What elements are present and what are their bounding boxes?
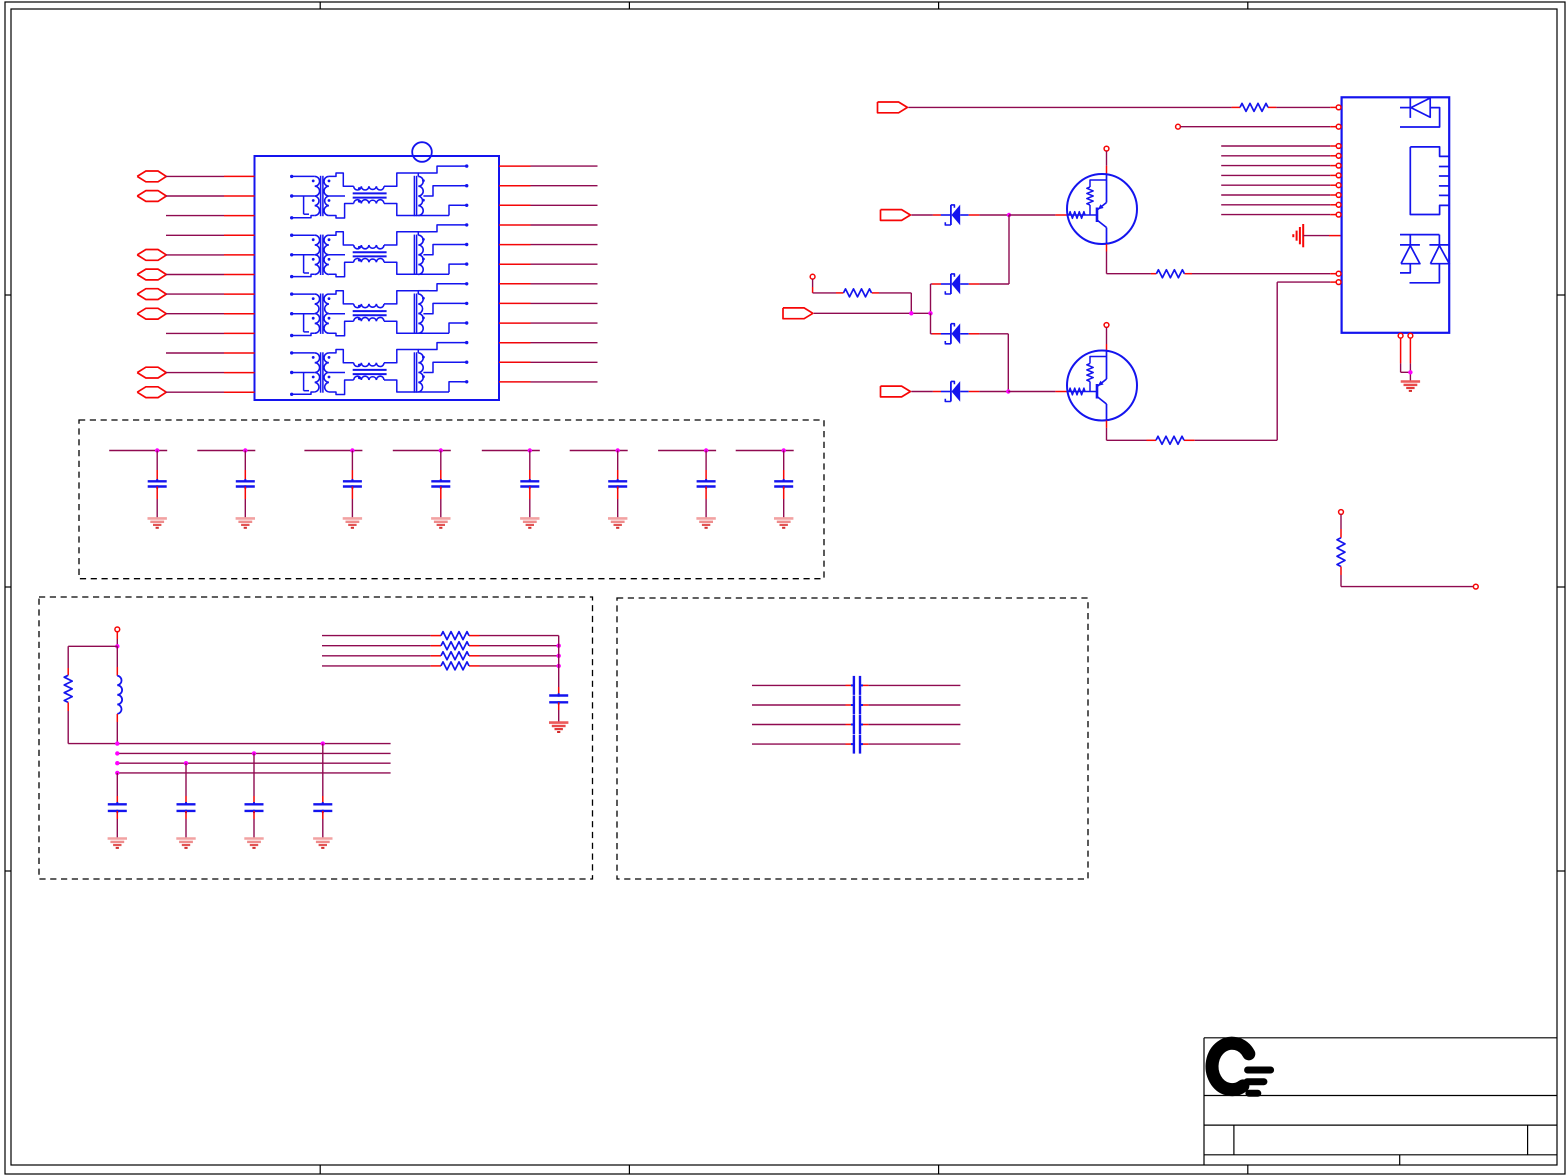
wire junction to left branch: [68, 645, 117, 647]
wire cap bank net 2: [197, 450, 255, 452]
ground (termination 3): [244, 839, 263, 848]
wire input row 1: [166, 175, 255, 177]
resistor R7: [1156, 436, 1184, 444]
ground (cap bank 1): [148, 518, 167, 527]
port IN6 (bidirectional hexagon): [137, 269, 166, 280]
ground (cap bank 3): [343, 518, 362, 527]
wire input row 11: [166, 372, 255, 374]
dashed enclosure (decoupling capacitor bank): [79, 420, 824, 579]
ground (cap bank 8): [774, 518, 793, 527]
capacitor C5: [520, 451, 539, 519]
wire port to D4: [911, 391, 941, 393]
LED pair LD2 LD3 (inside J1): [1400, 235, 1449, 283]
wire input row 2: [166, 195, 255, 197]
dashed enclosure (termination network): [39, 597, 593, 879]
wire J1 data 8: [1221, 214, 1336, 216]
capacitor C14: [313, 796, 332, 839]
capacitor C1: [148, 451, 167, 519]
wire coupling net 2: [752, 704, 960, 706]
port IN8 (bidirectional hexagon): [137, 308, 166, 319]
resistor R6: [1156, 270, 1184, 278]
connector J1 (RJ45 with magnetics) body: [1342, 97, 1450, 332]
capacitor C7: [697, 451, 716, 519]
wire Q2 emitter: [1106, 327, 1108, 350]
wire J1 data 2: [1221, 155, 1336, 157]
wire input row 3: [166, 215, 255, 217]
wire bus 4: [117, 772, 390, 774]
ground (cap bank 7): [696, 518, 715, 527]
wire input row 8: [166, 313, 255, 315]
wire output row 10: [499, 342, 598, 344]
transformer group T2 (isolation transformer + common-mode choke + autotransformer): [290, 223, 468, 278]
junction node 3: [350, 448, 354, 452]
wire J1 data 5: [1221, 184, 1336, 186]
pin (open circle) Q1 emitter supply: [1104, 146, 1109, 151]
junction node 7: [704, 448, 708, 452]
port IN11 (bidirectional hexagon): [137, 367, 166, 378]
wire right column: [558, 636, 560, 687]
wire cap bank net 7: [658, 450, 716, 452]
pin (open circle) LED return: [1176, 124, 1181, 129]
capacitor C17 (series): [851, 696, 863, 715]
transistor Q1 (digital PNP): [1067, 174, 1137, 244]
port TX+ (arrow): [881, 210, 911, 221]
port TX- (arrow): [881, 386, 911, 397]
wire bus tap 4: [322, 744, 324, 796]
junction node G: [1408, 370, 1412, 374]
wire J1 data 6: [1221, 194, 1336, 196]
wire output row 6: [499, 263, 598, 265]
pin (open circle) R9 end: [1473, 584, 1478, 589]
wire bottom link: [68, 743, 117, 745]
junction node 8: [782, 448, 786, 452]
junction node B2: [909, 311, 913, 315]
resistor R3: [441, 642, 469, 650]
wire bus 1: [117, 743, 390, 745]
magnetics module U1 box: [255, 156, 500, 400]
wire D2 cathode to node C: [931, 284, 942, 313]
wire cap bank net 6: [570, 450, 628, 452]
capacitor C15: [549, 687, 568, 723]
connector J1 pins (open circles): [1336, 105, 1341, 285]
port IN12 (bidirectional hexagon): [137, 387, 166, 398]
wire Q1 collector to J1: [1107, 244, 1337, 274]
chassis ground (J1 shield): [1293, 224, 1303, 247]
wire J1 data 4: [1221, 174, 1336, 176]
wire D1 to node B1: [969, 214, 1009, 216]
wire cap bank net 4: [393, 450, 451, 452]
wire coupling net 4: [752, 743, 960, 745]
wire cap bank net 1: [109, 450, 167, 452]
capacitor C8: [774, 451, 793, 519]
wire input row 12: [166, 391, 255, 393]
dashed enclosure (AC coupling capacitors): [617, 598, 1088, 879]
resistor R10 (left branch): [64, 646, 72, 743]
wire node B1 to Q1 base: [1009, 214, 1067, 216]
wire output row 1: [499, 165, 598, 167]
wire center net: [814, 312, 931, 314]
wire pin to junction: [116, 632, 118, 647]
junction node D: [1006, 389, 1010, 393]
capacitor C12: [177, 796, 196, 839]
wire Q2 collector to J1: [1107, 282, 1337, 440]
wire cap bank net 5: [482, 450, 540, 452]
LED LD1 (inside J1): [1400, 98, 1440, 127]
capacitor C3: [343, 451, 362, 519]
wire output row 12: [499, 381, 598, 383]
junction bus 3 left: [115, 761, 119, 765]
wire D3 anode to node D: [969, 334, 1009, 392]
wire LED return: [1180, 126, 1336, 128]
port IN1 (bidirectional hexagon): [137, 171, 166, 182]
wire node C down to D3: [930, 313, 932, 334]
wire bus 3: [117, 762, 390, 764]
wire bus tap 3: [253, 753, 255, 796]
capacitor C19 (series): [851, 735, 863, 754]
junction node 1: [155, 448, 159, 452]
diode D4 (schottky): [941, 381, 969, 402]
transformer group T3 (isolation transformer + common-mode choke + autotransformer): [290, 282, 468, 337]
magnetics module orientation circle: [412, 142, 432, 162]
wire J1 data 3: [1221, 165, 1336, 167]
junction node 2: [243, 448, 247, 452]
wire LED net: [908, 106, 1336, 108]
pin (open circle) J1 gnd 2: [1408, 333, 1413, 338]
ground (termination 4): [313, 839, 332, 848]
wire cap bank net 3: [304, 450, 362, 452]
pin (open circle) Q2 emitter supply: [1104, 323, 1109, 328]
wire input row 5: [166, 254, 255, 256]
wire series net 4: [322, 665, 559, 667]
wire series net 3: [322, 655, 559, 657]
junction bus tap 3: [252, 751, 256, 755]
wire shield: [1303, 235, 1341, 237]
capacitor C18 (series): [851, 715, 863, 734]
pin (open circle) R9 top: [1339, 510, 1344, 515]
wire R9 bottom: [1341, 567, 1473, 587]
junction node 5: [528, 448, 532, 452]
wire J1 data 1: [1221, 145, 1336, 147]
ground (cap bank 6): [608, 518, 627, 527]
resistor R5: [441, 662, 469, 670]
junction bus 1 left: [115, 741, 119, 745]
resistor R5 (bias): [844, 289, 872, 297]
wire coupling net 1: [752, 684, 960, 686]
resistor R9: [1337, 538, 1345, 567]
junction node 4: [439, 448, 443, 452]
diode D2 (schottky): [941, 274, 969, 295]
wire output row 7: [499, 283, 598, 285]
resistor R4: [441, 652, 469, 660]
capacitor C6: [608, 451, 627, 519]
junction node B1: [1007, 213, 1011, 217]
diode D1 (schottky): [941, 205, 969, 226]
port IN5 (bidirectional hexagon): [137, 250, 166, 261]
wire input row 9: [166, 332, 255, 334]
wire node B1 down to D2: [1008, 215, 1010, 284]
wire series net 1: [322, 635, 559, 637]
wire output row 11: [499, 361, 598, 363]
port TXC (arrow): [783, 308, 813, 319]
wire cap column 1: [116, 773, 118, 796]
port IN2 (bidirectional hexagon): [137, 191, 166, 202]
ground (termination 1): [108, 839, 127, 848]
wire J1 data 7: [1221, 204, 1336, 206]
capacitor C2: [236, 451, 255, 519]
capacitor C4: [431, 451, 450, 519]
wire input row 6: [166, 274, 255, 276]
junction node 6: [616, 448, 620, 452]
pin (open circle) bias input: [810, 274, 815, 279]
wire bus tap 2: [185, 763, 187, 796]
junction at column: [557, 654, 561, 658]
resistor R2: [441, 632, 469, 640]
wire J1 ground legs: [1401, 338, 1411, 381]
junction node B3: [928, 311, 932, 315]
junction at column: [557, 644, 561, 648]
junction node A: [115, 644, 119, 648]
wire node D to Q2 base: [1008, 391, 1067, 393]
wire output row 2: [499, 185, 598, 187]
wire input row 4: [166, 234, 255, 236]
capacitor C13: [245, 796, 264, 839]
capacitor C11: [108, 796, 127, 839]
inductor L1 (center branch): [117, 646, 122, 743]
junction bus 2 left: [115, 751, 119, 755]
wire input row 7: [166, 293, 255, 295]
junction bus tap 4: [321, 741, 325, 745]
transformer group T1 (isolation transformer + common-mode choke + autotransformer): [290, 164, 468, 219]
wire output row 4: [499, 224, 598, 226]
wire D4 to node D: [969, 391, 1009, 393]
diode D3 (schottky): [941, 323, 969, 344]
ground (cap bank 2): [236, 518, 255, 527]
junction bus 4 left: [115, 771, 119, 775]
title block: [1204, 1038, 1557, 1165]
wire port to D1: [911, 214, 941, 216]
wire input row 10: [166, 352, 255, 354]
pin (open circle) J1 gnd 1: [1398, 333, 1403, 338]
transformer group T4 (isolation transformer + common-mode choke + autotransformer): [290, 341, 468, 396]
company logo: [1212, 1043, 1271, 1093]
transistor Q2 (digital PNP): [1067, 351, 1137, 421]
port LED (arrow): [878, 102, 908, 113]
wire R9 top: [1340, 514, 1342, 537]
capacitor C16 (series): [851, 676, 863, 695]
port IN7 (bidirectional hexagon): [137, 289, 166, 300]
wire output row 8: [499, 302, 598, 304]
ground (right column): [549, 723, 568, 732]
ground (cap bank 4): [431, 518, 450, 527]
wire D2 anode: [969, 283, 1009, 285]
wire bus 2: [117, 752, 390, 754]
junction bus tap 2: [184, 761, 188, 765]
ground (J1): [1401, 382, 1420, 391]
wire output row 5: [499, 244, 598, 246]
wire D3 cathode: [931, 333, 942, 335]
wire series net 2: [322, 645, 559, 647]
wire output row 3: [499, 204, 598, 206]
junction at column: [557, 664, 561, 668]
ground (cap bank 5): [520, 518, 539, 527]
wire bias branch: [813, 279, 912, 313]
wire Q1 emitter: [1106, 151, 1108, 174]
wire cap bank net 8: [736, 450, 794, 452]
wire output row 9: [499, 322, 598, 324]
resistor R8: [1240, 103, 1268, 111]
pin (open circle) top of termination: [115, 627, 120, 632]
RJ45 jack symbol (inside J1): [1410, 147, 1449, 215]
wire coupling net 3: [752, 724, 960, 726]
ground (termination 2): [176, 839, 195, 848]
